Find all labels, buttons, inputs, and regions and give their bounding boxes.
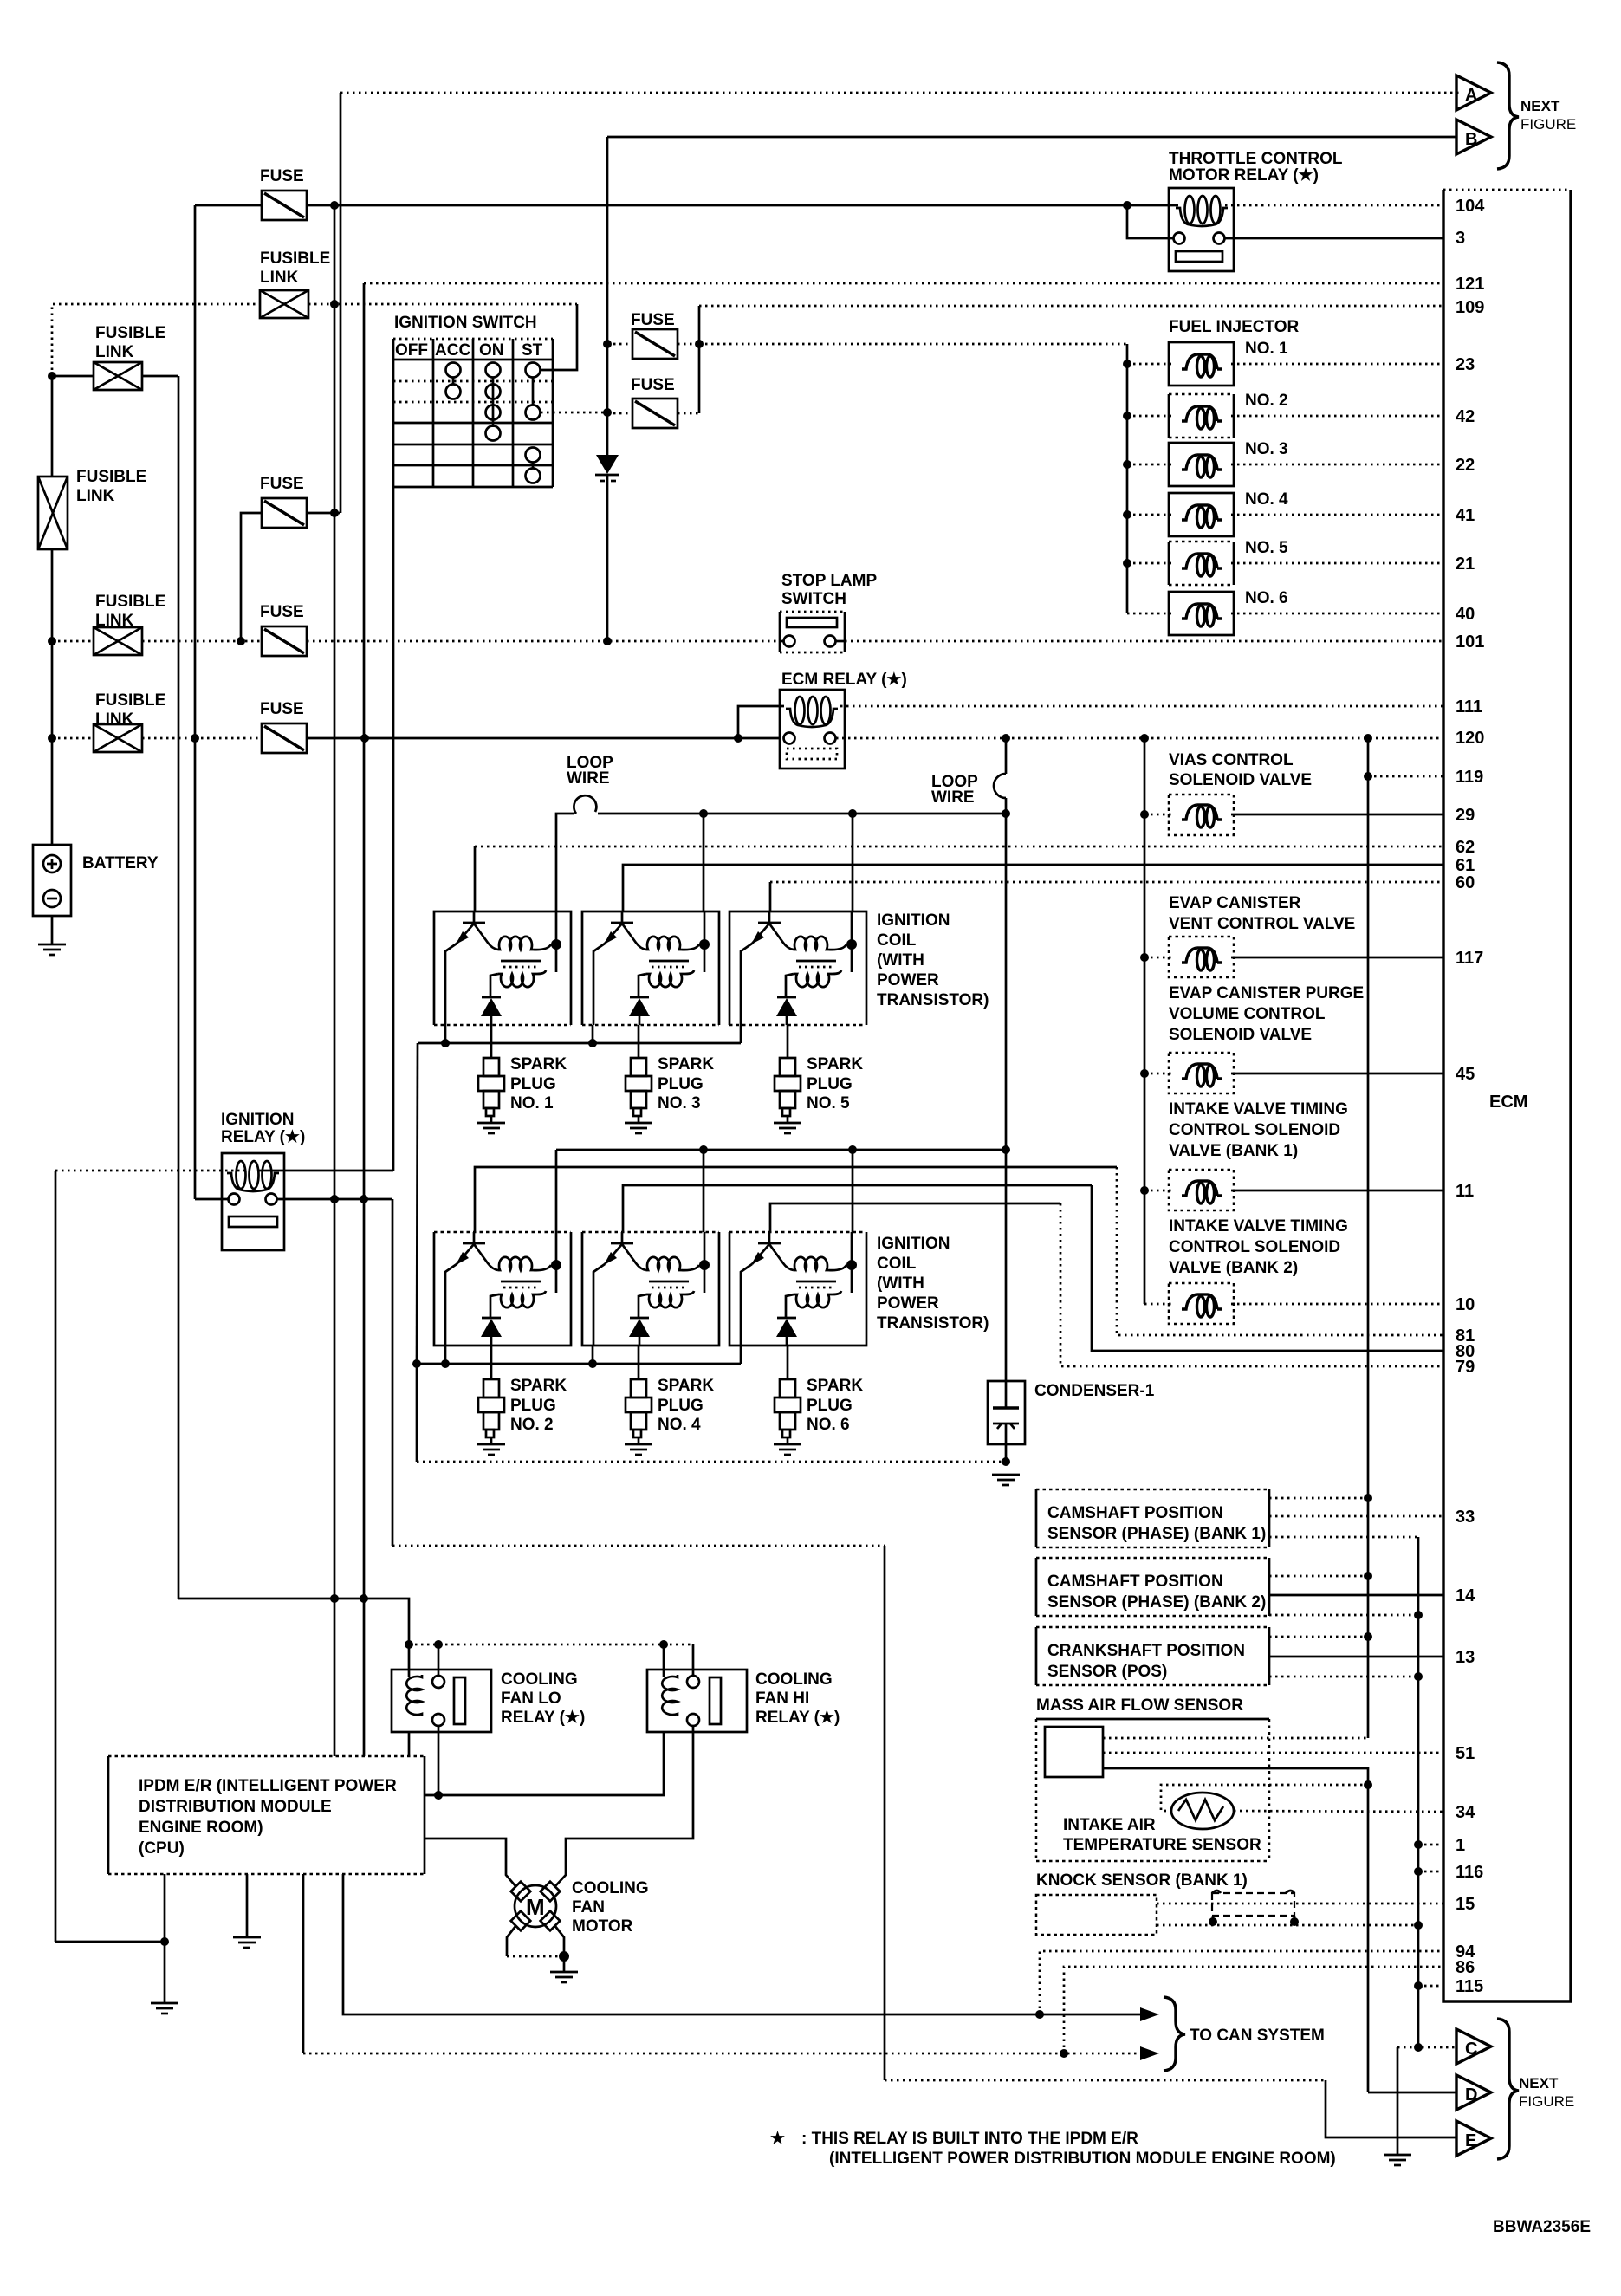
wire D feed	[1368, 2092, 1456, 2094]
wire ECM relay coil pin 111	[738, 706, 1443, 738]
fuse (row 592 to A-net)	[241, 475, 307, 641]
svg-text:FIGURE: FIGURE	[1519, 2093, 1574, 2110]
footnote	[770, 2130, 1336, 2168]
svg-text:NO. 5: NO. 5	[807, 1094, 850, 1112]
wire pin 60	[770, 882, 1443, 911]
wire pin 86	[1060, 1967, 1443, 2058]
svg-text:SOLENOID VALVE: SOLENOID VALVE	[1169, 1026, 1312, 1044]
svg-text:42: 42	[1456, 407, 1475, 426]
wire pin 81 base line	[475, 1167, 1443, 1335]
svg-text:FUSE: FUSE	[631, 376, 675, 394]
svg-text:1: 1	[1456, 1836, 1465, 1855]
svg-text:FUSIBLE: FUSIBLE	[95, 691, 165, 710]
svg-text:34: 34	[1456, 1803, 1475, 1822]
diode	[595, 137, 619, 641]
svg-text:C: C	[1465, 2040, 1477, 2059]
wire throttle relay contact to pin 3	[1127, 205, 1443, 238]
svg-text:PLUG: PLUG	[510, 1397, 556, 1415]
condenser C1	[988, 1381, 1025, 1462]
ignition coil upper 2	[582, 911, 719, 1025]
wire pin116 stub	[1414, 1867, 1443, 1876]
wire C feed	[1397, 2043, 1456, 2155]
wire CAN dotted line	[303, 1874, 1140, 2053]
svg-text:33: 33	[1456, 1508, 1475, 1527]
svg-text:22: 22	[1456, 456, 1475, 475]
svg-text:★: ★	[770, 2130, 785, 2148]
svg-text:THROTTLE CONTROL: THROTTLE CONTROL	[1169, 150, 1343, 168]
svg-text:10: 10	[1456, 1295, 1475, 1314]
fusible link (vertical, battery feed)	[38, 376, 146, 845]
spark plug no1	[477, 1025, 567, 1133]
wire fuse to throttle relay coil pin104	[307, 201, 1443, 210]
svg-text:NO. 1: NO. 1	[510, 1094, 554, 1112]
wires camshaft bank1	[1269, 1494, 1443, 2047]
svg-text:VOLUME CONTROL: VOLUME CONTROL	[1169, 1005, 1326, 1023]
svg-text:STOP LAMP: STOP LAMP	[781, 572, 877, 590]
svg-text:A: A	[1465, 86, 1477, 105]
svg-text:23: 23	[1456, 355, 1475, 374]
svg-text:29: 29	[1456, 806, 1475, 825]
svg-text:FUSE: FUSE	[260, 167, 304, 185]
fuse (ECM relay row)	[260, 700, 307, 753]
wire coil2 power drop	[703, 814, 705, 911]
svg-text:IGNITION: IGNITION	[877, 911, 950, 930]
svg-text:POWER: POWER	[877, 971, 939, 989]
ignition coil lower 1	[434, 1232, 571, 1346]
svg-text:SENSOR (PHASE) (BANK 2): SENSOR (PHASE) (BANK 2)	[1047, 1593, 1266, 1612]
svg-text:VALVE (BANK 1): VALVE (BANK 1)	[1169, 1142, 1298, 1160]
svg-text:TRANSISTOR): TRANSISTOR)	[877, 991, 989, 1009]
fuse (top, feeds throttle relay)	[195, 167, 307, 1199]
ignition relay	[222, 1153, 284, 1250]
svg-text:B: B	[1465, 130, 1477, 149]
wires camshaft bank2	[1269, 1572, 1443, 1619]
svg-text:MOTOR: MOTOR	[572, 1917, 633, 1936]
svg-text:NO. 5: NO. 5	[1245, 539, 1288, 557]
svg-text:(WITH: (WITH	[877, 1274, 924, 1293]
svg-text:62: 62	[1456, 838, 1475, 857]
svg-text:NO. 2: NO. 2	[510, 1416, 554, 1434]
svg-text:SENSOR (PHASE) (BANK 1): SENSOR (PHASE) (BANK 1)	[1047, 1525, 1266, 1543]
ground IPDM right	[233, 1937, 261, 1948]
wire pin 15 knock signal	[1157, 1903, 1443, 1905]
svg-text:109: 109	[1456, 298, 1484, 317]
wire battery to fusible link dotted 351	[52, 300, 577, 376]
stop lamp switch	[780, 612, 845, 652]
svg-text:RELAY (★): RELAY (★)	[221, 1128, 305, 1146]
svg-text:E: E	[1465, 2131, 1476, 2150]
svg-text:21: 21	[1456, 555, 1475, 574]
svg-text:SPARK: SPARK	[658, 1055, 714, 1073]
svg-text:VALVE (BANK 2): VALVE (BANK 2)	[1169, 1259, 1298, 1277]
svg-text:FIGURE: FIGURE	[1520, 116, 1576, 133]
brace next figure top	[1497, 62, 1519, 169]
svg-text:40: 40	[1456, 605, 1475, 624]
svg-text:FUSIBLE: FUSIBLE	[95, 324, 165, 342]
svg-text:SPARK: SPARK	[510, 1377, 567, 1395]
wire stop lamp feed row 740	[48, 637, 780, 645]
crankshaft position sensor label/box	[1036, 1627, 1269, 1685]
svg-text:60: 60	[1456, 873, 1475, 892]
spark plug no5	[774, 1025, 863, 1133]
wire CAN solid line	[343, 1874, 1140, 2014]
svg-text:LINK: LINK	[76, 487, 115, 505]
svg-text:61: 61	[1456, 856, 1475, 875]
svg-text:NO. 3: NO. 3	[1245, 440, 1288, 458]
wire lower coil emitter return line	[412, 1043, 741, 1462]
svg-text:PLUG: PLUG	[658, 1075, 704, 1093]
wire fan motor ground	[507, 1925, 569, 1972]
wire pin 109 dotted	[699, 305, 1443, 308]
ignition coil lower 2	[582, 1232, 719, 1346]
wire IPDM to fan motor left	[425, 1839, 516, 1887]
next figure connector E	[1456, 2121, 1491, 2156]
svg-text:117: 117	[1456, 949, 1483, 968]
svg-text:BATTERY: BATTERY	[82, 854, 159, 872]
wire lower coil power line 1327	[556, 1145, 1006, 1154]
svg-text:FUSE: FUSE	[260, 700, 304, 718]
svg-text:51: 51	[1456, 1744, 1475, 1763]
ECM relay	[780, 690, 845, 769]
svg-text:POWER: POWER	[877, 1294, 939, 1313]
svg-text:VENT CONTROL VALVE: VENT CONTROL VALVE	[1169, 915, 1355, 933]
wire ignition relay coil dotted from IPDM ground net	[55, 1171, 393, 1942]
brace TO CAN SYSTEM	[1164, 1997, 1185, 2071]
svg-text:ON: ON	[479, 341, 504, 360]
next figure connector D	[1456, 2075, 1491, 2110]
svg-text:INTAKE VALVE TIMING: INTAKE VALVE TIMING	[1169, 1217, 1348, 1236]
svg-text:CRANKSHAFT POSITION: CRANKSHAFT POSITION	[1047, 1642, 1245, 1660]
svg-text:NO. 2: NO. 2	[1245, 392, 1288, 410]
svg-text:(WITH: (WITH	[877, 951, 924, 970]
svg-text:IGNITION SWITCH: IGNITION SWITCH	[394, 314, 537, 332]
svg-text:CAMSHAFT POSITION: CAMSHAFT POSITION	[1047, 1573, 1223, 1591]
svg-text:FUSE: FUSE	[260, 603, 304, 621]
svg-text:ENGINE ROOM): ENGINE ROOM)	[139, 1819, 263, 1837]
wires MAF	[1103, 1738, 1443, 2092]
ignition coil upper 1	[434, 911, 571, 1025]
svg-text:45: 45	[1456, 1065, 1475, 1084]
svg-text:NO. 1: NO. 1	[1245, 340, 1288, 358]
svg-text:FAN HI: FAN HI	[755, 1690, 809, 1708]
svg-text:3: 3	[1456, 229, 1465, 248]
svg-text:NO. 4: NO. 4	[1245, 490, 1288, 509]
wire ground return dotted 1687	[417, 1457, 1010, 1466]
knock sensor box	[1036, 1895, 1157, 1935]
spark plug no6	[774, 1346, 863, 1455]
brace next figure bottom	[1497, 2019, 1519, 2159]
EVAP canister vent control valve	[1144, 937, 1443, 977]
fuse (stop lamp row)	[260, 603, 307, 656]
svg-text:CONTROL SOLENOID: CONTROL SOLENOID	[1169, 1121, 1340, 1139]
wire ignition relay output dotted to E-net	[392, 1546, 885, 2080]
arrow CAN 1	[1140, 2007, 1159, 2021]
svg-text:11: 11	[1456, 1182, 1474, 1201]
spark plug no4	[625, 1346, 714, 1455]
svg-text:COOLING: COOLING	[755, 1670, 833, 1689]
wire E feed dotted	[885, 2080, 1456, 2137]
ignition coil upper 3	[729, 911, 866, 1025]
ECM box	[1443, 190, 1571, 2001]
svg-text:COOLING: COOLING	[501, 1670, 578, 1689]
svg-text:14: 14	[1456, 1586, 1475, 1605]
svg-text:79: 79	[1456, 1358, 1475, 1377]
wire A line	[340, 92, 1459, 94]
VIAS control solenoid valve	[1144, 795, 1443, 835]
wire knock shield return	[1157, 1921, 1423, 1930]
throttle control motor relay	[1169, 188, 1234, 271]
svg-text:SPARK: SPARK	[658, 1377, 714, 1395]
wires crankshaft	[1269, 1632, 1443, 1681]
wire FL feed to fan relays	[178, 1594, 409, 1644]
svg-text:PLUG: PLUG	[658, 1397, 704, 1415]
wire coil3 power drop	[852, 814, 854, 911]
svg-text:SENSOR (POS): SENSOR (POS)	[1047, 1663, 1167, 1681]
spark plug no3	[625, 1025, 714, 1133]
next figure connector B	[1456, 120, 1491, 154]
svg-text:PLUG: PLUG	[807, 1075, 853, 1093]
ground C line	[1384, 2155, 1411, 2165]
fusible link (feeds pin 121 / ST row)	[260, 250, 330, 318]
cooling fan LO relay label	[501, 1670, 585, 1727]
svg-text:COOLING: COOLING	[572, 1879, 649, 1897]
wire pin121 dotted	[364, 283, 1443, 1756]
ignition switch	[393, 339, 553, 487]
svg-text:SOLENOID VALVE: SOLENOID VALVE	[1169, 771, 1312, 789]
ignition coil lower 3	[729, 1232, 866, 1346]
svg-text:ECM: ECM	[1489, 1093, 1527, 1112]
wire pin 115 stub	[1414, 1981, 1443, 1990]
wire solenoid feed vertical 1321	[1140, 738, 1149, 1304]
svg-text:IPDM E/R (INTELLIGENT POWER: IPDM E/R (INTELLIGENT POWER	[139, 1777, 397, 1795]
wire fuse outputs junction vertical	[698, 306, 701, 413]
fuel injector NO. 1	[1127, 340, 1443, 386]
wire ST row3 to fuse	[541, 408, 612, 417]
ground fan motor	[550, 1972, 578, 1982]
fuel injector NO. 6	[1127, 589, 1443, 635]
intake valve timing control solenoid valve bank2	[1144, 1283, 1443, 1324]
svg-text:13: 13	[1456, 1648, 1475, 1667]
cooling fan LO relay	[392, 1670, 491, 1732]
svg-text:121: 121	[1456, 275, 1484, 294]
cooling fan HI relay	[647, 1670, 747, 1732]
camshaft position sensor bank2 label/box	[1036, 1558, 1269, 1616]
wire lower coil power drops	[556, 1150, 853, 1232]
fuel injector NO. 2	[1127, 392, 1443, 438]
svg-text:FUSIBLE: FUSIBLE	[260, 250, 330, 268]
ground battery	[38, 944, 66, 955]
svg-text:MASS AIR FLOW SENSOR: MASS AIR FLOW SENSOR	[1036, 1696, 1243, 1715]
svg-text:(CPU): (CPU)	[139, 1839, 185, 1858]
wire ST row1 feed from fusible link	[541, 304, 577, 370]
svg-text:IGNITION: IGNITION	[221, 1111, 294, 1129]
svg-text:COIL: COIL	[877, 931, 917, 950]
svg-text:WIRE: WIRE	[931, 788, 975, 807]
wire IPDM ground 2	[246, 1874, 249, 1937]
svg-text:: THIS RELAY IS BUILT INTO THE: : THIS RELAY IS BUILT INTO THE IPDM E/R	[801, 2130, 1138, 2148]
svg-text:EVAP CANISTER: EVAP CANISTER	[1169, 894, 1301, 912]
svg-text:MOTOR RELAY (★): MOTOR RELAY (★)	[1169, 166, 1319, 185]
svg-text:KNOCK SENSOR (BANK 1): KNOCK SENSOR (BANK 1)	[1036, 1871, 1248, 1890]
wire pin1 stub	[1414, 1840, 1443, 1849]
svg-text:111: 111	[1456, 697, 1482, 717]
svg-text:OFF: OFF	[395, 341, 428, 360]
svg-text:(INTELLIGENT POWER DISTRIBUTIO: (INTELLIGENT POWER DISTRIBUTION MODULE E…	[829, 2150, 1336, 2168]
svg-text:101: 101	[1456, 632, 1484, 652]
svg-text:LINK: LINK	[95, 343, 134, 361]
svg-text:BBWA2356E: BBWA2356E	[1493, 2218, 1591, 2236]
fuel injector NO. 4	[1127, 490, 1443, 536]
fusible link (stop lamp row)	[94, 593, 165, 655]
svg-text:115: 115	[1456, 1977, 1483, 1996]
knock sensor cable shield	[1209, 1891, 1299, 1926]
intake valve timing control solenoid valve bank1	[1144, 1170, 1443, 1210]
svg-text:NEXT: NEXT	[1519, 2075, 1559, 2092]
fusible link (to ignition relay branch 434)	[48, 324, 178, 1599]
svg-text:NO. 3: NO. 3	[658, 1094, 701, 1112]
fuel injector NO. 3	[1127, 440, 1443, 486]
camshaft position sensor bank1 label/box	[1036, 1489, 1269, 1547]
cooling fan motor	[511, 1882, 561, 1931]
svg-text:CONTROL SOLENOID: CONTROL SOLENOID	[1169, 1238, 1340, 1256]
svg-text:ECM RELAY (★): ECM RELAY (★)	[781, 671, 907, 689]
wire HI contact to fan motor right	[554, 1726, 693, 1887]
wire coil power line 939	[556, 809, 1010, 911]
svg-text:WIRE: WIRE	[567, 769, 610, 788]
svg-text:FUEL INJECTOR: FUEL INJECTOR	[1169, 318, 1300, 336]
svg-text:TO CAN SYSTEM: TO CAN SYSTEM	[1190, 2027, 1325, 2045]
svg-text:NO. 4: NO. 4	[658, 1416, 701, 1434]
svg-text:FAN LO: FAN LO	[501, 1690, 561, 1708]
svg-text:PLUG: PLUG	[510, 1075, 556, 1093]
wire pin 119 stub	[1364, 772, 1443, 781]
svg-text:PLUG: PLUG	[807, 1397, 853, 1415]
wire pin 61	[623, 865, 1443, 911]
svg-text:COIL: COIL	[877, 1255, 917, 1273]
wire LO coil to IPDM	[408, 1732, 411, 1756]
loop wire symbol right	[994, 774, 1006, 798]
loop wire symbol left	[574, 795, 596, 814]
svg-text:ST: ST	[522, 341, 543, 360]
svg-text:CONDENSER-1: CONDENSER-1	[1034, 1382, 1155, 1400]
svg-text:116: 116	[1456, 1863, 1483, 1882]
wire IPDM ground pins	[55, 1874, 169, 2003]
svg-text:RELAY (★): RELAY (★)	[501, 1709, 585, 1727]
wire injector feed bus	[1123, 344, 1131, 613]
svg-text:INTAKE AIR: INTAKE AIR	[1063, 1816, 1156, 1834]
svg-text:IGNITION: IGNITION	[877, 1235, 950, 1253]
intake air temperature sensor	[1161, 1780, 1443, 1829]
svg-text:RELAY (★): RELAY (★)	[755, 1709, 840, 1727]
spark plug no2	[477, 1346, 567, 1455]
svg-text:LINK: LINK	[260, 269, 299, 287]
svg-text:SWITCH: SWITCH	[781, 590, 846, 608]
svg-text:41: 41	[1456, 506, 1475, 525]
wire switched power vertical right	[1367, 738, 1370, 1738]
wire ECM relay output pin 120	[836, 734, 1443, 743]
wire A drop vertical	[340, 93, 342, 513]
svg-text:NO. 6: NO. 6	[807, 1416, 850, 1434]
wire injector feed dotted	[699, 343, 1127, 346]
svg-text:FUSE: FUSE	[260, 475, 304, 493]
svg-text:SPARK: SPARK	[510, 1055, 567, 1073]
svg-text:FUSE: FUSE	[631, 311, 675, 329]
ground IPDM left	[151, 2003, 178, 2014]
next figure connector A	[1456, 75, 1491, 110]
svg-text:15: 15	[1456, 1895, 1475, 1914]
svg-text:NEXT: NEXT	[1520, 98, 1560, 114]
arrow CAN 2	[1140, 2046, 1159, 2060]
fusible link (ECM relay row)	[94, 691, 165, 752]
svg-text:SPARK: SPARK	[807, 1377, 863, 1395]
svg-text:INTAKE VALVE TIMING: INTAKE VALVE TIMING	[1169, 1100, 1348, 1119]
svg-text:TRANSISTOR): TRANSISTOR)	[877, 1314, 989, 1333]
fuse (pin 109 feed)	[607, 376, 699, 428]
svg-text:D: D	[1465, 2085, 1477, 2105]
svg-text:104: 104	[1456, 197, 1485, 216]
wire pin 79 base line	[770, 1203, 1443, 1366]
next figure connector C	[1456, 2029, 1491, 2064]
svg-text:M: M	[526, 1894, 545, 1920]
battery	[33, 845, 159, 944]
wire B line	[607, 136, 1456, 139]
fuse (injector feed)	[603, 311, 704, 359]
svg-text:TEMPERATURE SENSOR: TEMPERATURE SENSOR	[1063, 1836, 1261, 1854]
wire fan relay feed dotted 1898	[405, 1640, 693, 1677]
svg-text:FUSIBLE: FUSIBLE	[76, 468, 146, 486]
cooling fan motor label	[572, 1879, 649, 1936]
fuel injector NO. 5	[1127, 539, 1443, 585]
wire fuse3 output to A-net	[307, 205, 340, 1756]
mass air flow sensor box	[1036, 1719, 1269, 1861]
svg-text:FAN: FAN	[572, 1898, 605, 1917]
svg-text:120: 120	[1456, 729, 1484, 748]
svg-text:VIAS CONTROL: VIAS CONTROL	[1169, 751, 1294, 769]
svg-text:EVAP CANISTER PURGE: EVAP CANISTER PURGE	[1169, 984, 1364, 1002]
cooling fan HI relay label	[755, 1670, 840, 1727]
wire ignition relay contact row	[195, 1195, 392, 1546]
wire pin 80 base line	[623, 1185, 1443, 1351]
svg-text:119: 119	[1456, 768, 1483, 787]
svg-text:SPARK: SPARK	[807, 1055, 863, 1073]
svg-text:86: 86	[1456, 1958, 1475, 1977]
wire pin 62	[475, 846, 1443, 911]
wire ignition switch bottom to ignition relay coil	[392, 487, 395, 1171]
svg-text:CAMSHAFT POSITION: CAMSHAFT POSITION	[1047, 1504, 1223, 1522]
ground condenser	[992, 1475, 1020, 1485]
wire ECM relay feed row 852	[48, 734, 780, 743]
svg-text:DISTRIBUTION MODULE: DISTRIBUTION MODULE	[139, 1798, 332, 1816]
wire pin 94	[1035, 1951, 1443, 2019]
svg-text:LINK: LINK	[95, 710, 134, 729]
EVAP canister purge volume control solenoid valve	[1144, 1053, 1443, 1093]
svg-text:FUSIBLE: FUSIBLE	[95, 593, 165, 611]
ECM pin numbers	[1456, 197, 1485, 1996]
svg-text:ACC: ACC	[435, 341, 470, 360]
IPDM E/R box	[108, 1756, 425, 1874]
wire IPDM to LO contact and HI coil	[425, 1726, 664, 1800]
svg-text:NO. 6: NO. 6	[1245, 589, 1288, 607]
wire pin 101 dotted	[845, 640, 1443, 643]
wire upper coil emitter return line	[418, 1025, 741, 1047]
wire condenser vertical	[1002, 738, 1010, 1381]
